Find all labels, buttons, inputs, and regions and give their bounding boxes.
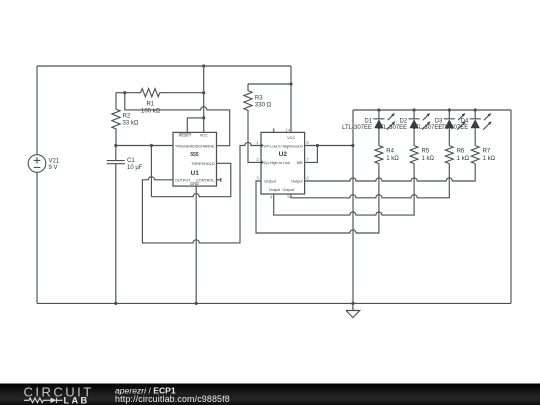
wire: bottom ground rail (37, 302, 511, 304)
junction R1 right end on VCC drop (202, 91, 205, 94)
svg-text:10 µF: 10 µF (127, 165, 143, 171)
svg-text:330 Ω: 330 Ω (255, 103, 272, 109)
svg-text:1 kΩ: 1 kΩ (457, 156, 470, 162)
LED D1 (373, 108, 395, 145)
wire: bus pin6 to R7 (hops over trunk, R4, R5, R6 leads) (305, 164, 476, 181)
clock wedge pin 1 (261, 143, 264, 147)
junction R3 branch (289, 82, 292, 85)
svg-text:LTL-307EE: LTL-307EE (377, 125, 407, 131)
wire: right side drop (510, 110, 512, 303)
svg-text:LTL-307EE: LTL-307EE (342, 125, 372, 131)
svg-text:Output: Output (291, 180, 303, 184)
svg-text:GND: GND (190, 181, 199, 186)
svg-text:R4: R4 (386, 149, 394, 155)
junction C1 bottom on ground rail (114, 302, 117, 305)
wire: bus pin3 to R4 (hop over trunk) (256, 164, 379, 233)
resistor R7 (471, 146, 479, 164)
svg-text:LTL-307EE: LTL-307EE (438, 125, 468, 131)
svg-text:14: 14 (285, 127, 291, 132)
resistor R3 (244, 84, 261, 162)
svg-text:VCC: VCC (287, 136, 295, 140)
svg-text:33 kΩ: 33 kΩ (123, 120, 139, 126)
wire: LED anode rail (353, 109, 511, 111)
wire: bus pin4 to R5 (hops over trunk, R4 lead) (274, 164, 414, 216)
LED D4 (470, 108, 492, 145)
resistor R4 (375, 146, 383, 164)
svg-text:R7: R7 (483, 149, 491, 155)
wire: node A branch from R1 wire down then right to 555 discharge riser (hop over VCC drop) (125, 93, 230, 146)
logo schematic squiggle: wire resistor diode (24, 398, 63, 403)
clock wedge pin 2 (261, 160, 264, 164)
wire: trigger-threshold link down, right (hop over GND line), up to THRESHOLD (151, 146, 230, 197)
svg-text:MR: MR (297, 161, 303, 165)
svg-text:1 kΩ: 1 kΩ (483, 156, 496, 162)
svg-text:Output: Output (264, 180, 276, 184)
svg-text:U2: U2 (279, 151, 288, 158)
svg-text:1: 1 (256, 140, 259, 145)
svg-text:4: 4 (270, 195, 273, 200)
svg-text:7: 7 (306, 157, 309, 162)
svg-text:D4: D4 (461, 118, 469, 124)
op-amp/timer U1 555 box (173, 132, 217, 186)
svg-text:Output: Output (282, 188, 294, 192)
svg-text:D1: D1 (364, 118, 372, 124)
svg-text:OUTPUT: OUTPUT (175, 179, 191, 183)
wire: 555 GND down to ground rail (195, 186, 197, 303)
svg-text:R5: R5 (422, 149, 430, 155)
LED D3 (444, 108, 466, 145)
resistor R2 (112, 109, 120, 145)
wire: V21 negative lead down to ground rail (36, 172, 38, 303)
wire: R3 branch horizontal (248, 83, 291, 85)
svg-text:D3: D3 (435, 118, 443, 124)
wire: VCC drop to 555 (junction on top rail) (203, 66, 205, 132)
wire: U2 pin 8 ground wire to trunk (305, 145, 353, 147)
svg-text:DISCHARGE: DISCHARGE (192, 145, 215, 149)
wire: 555 CONTROL no-connect stub (217, 178, 221, 182)
wire: ground trunk from rail to ground rail (352, 110, 354, 303)
svg-text:555: 555 (190, 152, 199, 158)
wire: U2 pin 7 MR tie to pin 8 (305, 146, 318, 163)
wire: trigger node horizontal to 555 (116, 145, 173, 147)
svg-text:TRIGGER: TRIGGER (175, 145, 193, 149)
svg-text:LAB: LAB (64, 396, 90, 405)
svg-text:8: 8 (306, 140, 309, 145)
svg-text:Cp-High to Low: Cp-High to Low (264, 161, 290, 165)
resistor R5 (410, 146, 418, 164)
voltage source V21 (28, 155, 46, 173)
svg-text:R6: R6 (457, 149, 465, 155)
svg-text:C1: C1 (127, 158, 135, 164)
resistor R1 (116, 89, 204, 97)
svg-text:R3: R3 (255, 95, 263, 101)
ground symbol (346, 303, 360, 317)
svg-text:http://circuitlab.com/c9885f8: http://circuitlab.com/c9885f8 (115, 394, 230, 404)
svg-text:2: 2 (256, 157, 259, 162)
svg-text:U1: U1 (190, 170, 199, 177)
svg-text:1 kΩ: 1 kΩ (422, 156, 435, 162)
capacitor C1 (107, 146, 125, 304)
svg-text:100 kΩ: 100 kΩ (141, 108, 161, 114)
resistor R6 (445, 146, 453, 164)
svg-text:6: 6 (306, 176, 309, 181)
wire: 9V top rail from V21 to U2 VCC drop (37, 65, 291, 67)
wire: R1 left end down to R2 top (115, 93, 117, 109)
svg-text:Output: Output (269, 188, 281, 192)
svg-text:5: 5 (287, 194, 290, 199)
svg-text:RESET: RESET (179, 134, 192, 138)
svg-text:R2: R2 (123, 114, 131, 120)
svg-text:VCC: VCC (200, 134, 208, 138)
junction at R1 wire branch (123, 91, 126, 94)
svg-text:Ground: Ground (290, 144, 303, 148)
svg-text:R1: R1 (146, 102, 154, 108)
wire: top rail right end drop to U2 VCC (290, 66, 292, 132)
footer bar (0, 384, 540, 405)
LED D2 (409, 108, 431, 145)
svg-text:9 V: 9 V (49, 165, 58, 171)
wire: V21 positive lead up to top rail (36, 66, 38, 155)
IC U2 box (261, 132, 305, 194)
svg-text:1 kΩ: 1 kΩ (386, 156, 399, 162)
wire: RESET branch from VCC drop (187, 118, 203, 132)
wire: bus pin5 to R6 (hops over trunk, R4, R5 leads) (291, 164, 449, 198)
svg-text:CP-Low to High: CP-Low to High (264, 144, 291, 148)
wire: 555 OUTPUT left (hop), down, right (hop over GND), up, right (hop over R3 lead) to U2 pin1 (142, 142, 261, 242)
svg-text:THRESHOLD: THRESHOLD (191, 162, 215, 166)
svg-text:D2: D2 (400, 118, 408, 124)
svg-text:3: 3 (256, 176, 259, 181)
U2 unconnected top stub (273, 129, 275, 133)
svg-text:V21: V21 (49, 158, 60, 164)
